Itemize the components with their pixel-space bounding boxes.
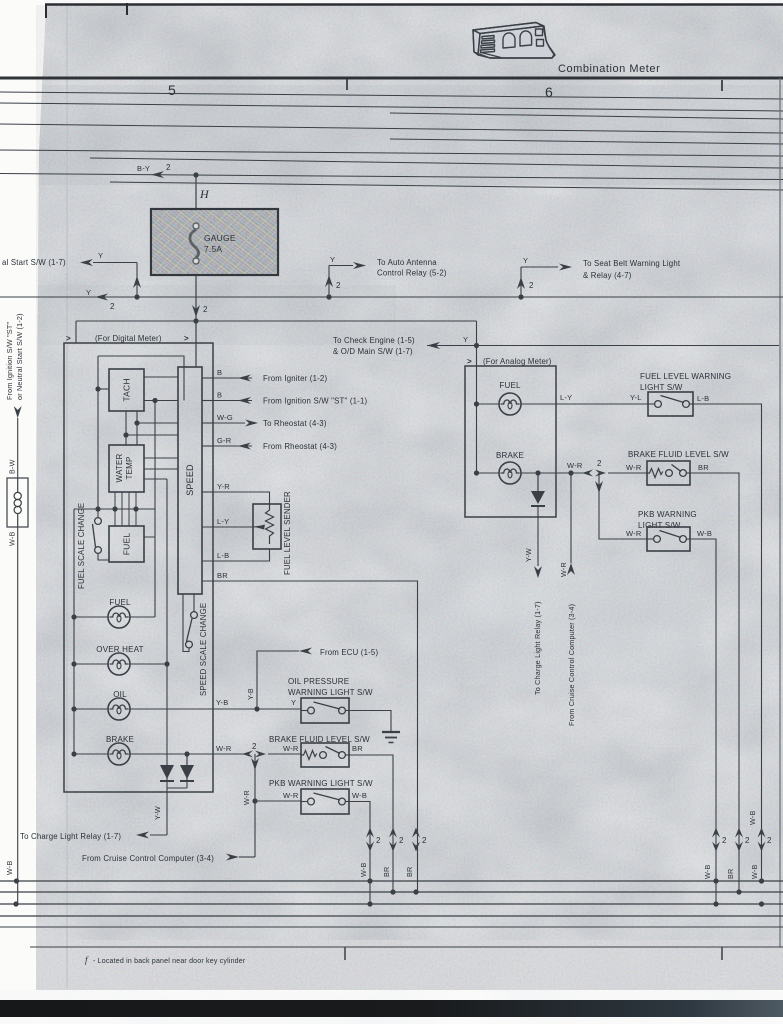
wire corner to analog feed	[476, 321, 478, 346]
svg-text:BRAKE: BRAKE	[496, 451, 524, 460]
svg-text:Y: Y	[98, 251, 103, 260]
wire to tach	[98, 388, 109, 390]
svg-text:From ECU (1-5): From ECU (1-5)	[320, 648, 378, 657]
connector arrow up	[325, 275, 333, 287]
svg-text:TEMP: TEMP	[125, 456, 134, 479]
svg-text:From Cruise Control Computer (: From Cruise Control Computer (3-4)	[567, 604, 576, 726]
connector arrow B-Y	[151, 171, 164, 178]
stub To Rheostat	[202, 422, 213, 424]
combination meter icon	[473, 23, 555, 59]
svg-text:BR: BR	[352, 744, 363, 753]
footer tick	[721, 947, 723, 960]
svg-text:2: 2	[767, 836, 772, 845]
connector arrow down	[192, 305, 200, 317]
wire B-Y bus	[0, 174, 783, 180]
svg-text:H: H	[199, 187, 210, 201]
junction B-Y/H	[193, 172, 198, 177]
(For Analog Meter) box	[465, 366, 556, 517]
svg-text:BR: BR	[726, 869, 735, 879]
meter WATER TEMP unit	[109, 445, 144, 492]
junction	[518, 294, 523, 299]
lamp OIL	[108, 698, 130, 720]
svg-text:& Relay (4-7): & Relay (4-7)	[583, 271, 632, 280]
wire tach-watertemp	[125, 411, 127, 445]
switch brake fluid level (right)	[647, 461, 690, 485]
wire W-B to ground bus	[17, 527, 19, 904]
top left tick	[45, 4, 47, 18]
svg-text:L-B: L-B	[217, 551, 229, 560]
svg-text:(For Analog Meter): (For Analog Meter)	[483, 357, 552, 366]
wire wt-fuel	[114, 492, 116, 526]
wire fuel unit stub	[144, 536, 155, 538]
svg-text:SPEED: SPEED	[185, 464, 195, 496]
lamp rail	[73, 509, 75, 754]
top tick x127	[126, 3, 128, 15]
wire Y to check engine	[427, 345, 779, 347]
bottom black bar	[0, 1000, 783, 1017]
svg-text:Y: Y	[523, 256, 528, 265]
paper crease	[66, 6, 68, 988]
connector arrow up	[133, 276, 141, 288]
svg-text:7.5A: 7.5A	[204, 244, 222, 254]
junction	[326, 294, 331, 299]
switch oil pressure warning light	[301, 698, 349, 723]
wire feed	[476, 346, 478, 474]
wire	[520, 267, 522, 297]
svg-text:W-R: W-R	[567, 461, 583, 470]
svg-text:From Ignition S/W "ST" (1-1): From Ignition S/W "ST" (1-1)	[263, 397, 367, 406]
svg-text:Y-W: Y-W	[524, 548, 533, 562]
svg-text:To Seat Belt Warning Light: To Seat Belt Warning Light	[583, 259, 681, 268]
svg-text:>: >	[184, 334, 189, 343]
wire wt-speed	[144, 468, 178, 470]
connector arrow down	[251, 758, 259, 770]
svg-text:Y: Y	[86, 288, 91, 297]
wire wt to overheat	[144, 478, 167, 480]
svg-text:2: 2	[110, 302, 115, 311]
wire to fuel lamp	[154, 401, 156, 618]
svg-text:From Igniter (1-2): From Igniter (1-2)	[263, 374, 327, 383]
svg-text:LIGHT S/W: LIGHT S/W	[640, 383, 683, 392]
inline connector 2	[242, 751, 253, 758]
svg-text:WARNING LIGHT S/W: WARNING LIGHT S/W	[288, 688, 373, 697]
svg-text:From Rheostat (4-3): From Rheostat (4-3)	[263, 442, 337, 451]
svg-text:W-R: W-R	[283, 791, 299, 800]
wire L-Y	[202, 526, 253, 528]
thick ruler line	[0, 77, 783, 80]
wire from ECU	[257, 651, 299, 709]
internal wiring	[98, 356, 184, 401]
arrow down to charge light relay	[534, 566, 542, 578]
svg-text:Y-B: Y-B	[246, 688, 255, 700]
junction	[193, 318, 198, 323]
noise filter coil	[7, 478, 28, 527]
svg-text:>: >	[467, 357, 472, 366]
svg-text:G-R: G-R	[217, 436, 232, 445]
svg-text:B-W: B-W	[8, 459, 17, 474]
svg-text:6: 6	[545, 84, 553, 100]
svg-text:2: 2	[376, 836, 381, 845]
junction	[474, 470, 479, 475]
junction	[14, 878, 19, 883]
svg-text:To Charge Light Relay (1-7): To Charge Light Relay (1-7)	[533, 601, 542, 695]
junction Y	[474, 343, 479, 348]
svg-text:BR: BR	[217, 571, 228, 580]
svg-text:TACH: TACH	[122, 378, 132, 401]
right page border	[779, 78, 781, 947]
wire Y-B to oil pressure switch	[130, 708, 301, 710]
svg-text:Y: Y	[330, 255, 335, 264]
svg-text:2: 2	[399, 836, 404, 845]
svg-text:W-R: W-R	[216, 744, 232, 753]
wire	[328, 266, 330, 298]
ruler tick x347	[346, 79, 348, 90]
svg-text:2: 2	[422, 836, 427, 845]
inline connector 2 at x=716	[712, 828, 720, 852]
svg-text:Combination Meter: Combination Meter	[558, 63, 660, 75]
junction	[252, 798, 257, 803]
wire Y to start S/W	[93, 262, 137, 264]
svg-text:WATER: WATER	[115, 453, 124, 482]
lamp FUEL	[108, 606, 130, 628]
branch to PKB right	[599, 473, 647, 539]
svg-text:al Start S/W (1-7): al Start S/W (1-7)	[2, 258, 66, 267]
lamp FUEL analog	[499, 393, 521, 415]
inline connector 2 at x=416	[412, 828, 420, 852]
ruler tick x722	[721, 80, 723, 91]
junction	[123, 432, 128, 437]
arrow to start S/W	[80, 259, 93, 266]
wire wt-fuel	[135, 492, 137, 526]
wire W-R	[521, 472, 584, 474]
svg-text:W-B: W-B	[352, 791, 367, 800]
stub From Igniter	[202, 377, 213, 379]
svg-text:W-B: W-B	[697, 529, 712, 538]
wire Y-W	[166, 788, 168, 835]
connector arrow up	[517, 277, 525, 289]
stub From Ignition SW ST	[202, 400, 213, 402]
diode D3	[537, 473, 539, 491]
switch PKB warning light (right)	[647, 527, 690, 551]
svg-text:From Ignition S/W "ST": From Ignition S/W "ST"	[5, 322, 14, 400]
svg-text:W-B: W-B	[8, 532, 17, 546]
wire bottom extra	[0, 926, 783, 928]
wire tach-speed	[144, 376, 178, 378]
footer rule	[30, 946, 783, 948]
wire L-B	[202, 549, 270, 561]
arrow from ECU	[299, 648, 312, 655]
svg-text:(For Digital Meter): (For Digital Meter)	[95, 334, 162, 343]
fuse GAUGE 7.5A box	[151, 209, 278, 275]
switch PKB warning light (left)	[301, 789, 349, 814]
svg-text:Y-L: Y-L	[630, 393, 642, 402]
svg-text:2: 2	[203, 305, 208, 314]
meter SPEED unit	[178, 367, 202, 594]
cruise control feed	[570, 473, 572, 563]
scan tone bands	[36, 85, 783, 185]
svg-text:To Rheostat (4-3): To Rheostat (4-3)	[263, 419, 327, 428]
wire W-R branch	[254, 754, 256, 857]
svg-text:To Check Engine (1-5): To Check Engine (1-5)	[333, 336, 415, 345]
wire wt-fuel	[128, 492, 130, 526]
wire H to gauge fuse	[195, 175, 197, 209]
junction	[13, 901, 18, 906]
svg-text:PKB WARNING LIGHT S/W: PKB WARNING LIGHT S/W	[269, 779, 373, 788]
wire drop	[136, 263, 138, 298]
wire to fuel scale change	[97, 356, 99, 517]
svg-text:L-Y: L-Y	[217, 517, 229, 526]
svg-text:- Located in back panel near d: - Located in back panel near door key cy…	[93, 958, 246, 965]
svg-text:2: 2	[529, 281, 534, 290]
svg-text:BR: BR	[698, 463, 709, 472]
inline connector 2 at x=393	[389, 828, 397, 852]
meter TACH unit	[109, 369, 144, 411]
svg-text:2: 2	[745, 836, 750, 845]
svg-text:W-B: W-B	[748, 811, 757, 825]
wire Y-R	[202, 491, 213, 493]
junction oil/ecu	[254, 706, 259, 711]
arrow up from cruise control	[567, 563, 575, 575]
wire to speed	[137, 422, 178, 424]
svg-text:W-B: W-B	[359, 863, 368, 877]
white scan margin left	[0, 0, 46, 990]
connector arrow down	[595, 481, 603, 493]
svg-text:Control Relay (5-2): Control Relay (5-2)	[377, 269, 447, 278]
svg-text:W-B: W-B	[750, 865, 759, 879]
ground/bus lines bottom	[0, 880, 783, 882]
svg-text:Y-B: Y-B	[216, 698, 228, 707]
svg-text:L-B: L-B	[697, 394, 709, 403]
junction diode	[535, 470, 540, 475]
wire tach-speed B	[144, 400, 178, 402]
horizontal harness lines (top band)	[0, 92, 783, 99]
switch fuel level warning light	[648, 392, 693, 416]
wire to speed	[126, 434, 178, 436]
inline connector 2 at x=370	[366, 828, 374, 852]
inline connector 2 at x=739	[735, 828, 743, 852]
wire overheat feed	[166, 479, 168, 765]
meter FUEL unit	[109, 526, 144, 562]
svg-text:FUEL SCALE CHANGE: FUEL SCALE CHANGE	[77, 503, 86, 589]
arrow down from ignition	[14, 406, 22, 418]
svg-text:& O/D Main S/W (1-7): & O/D Main S/W (1-7)	[333, 347, 413, 356]
switch blade	[187, 619, 193, 642]
svg-text:2: 2	[252, 742, 257, 751]
fuel level sender box	[253, 504, 281, 549]
connector arrow Y bus	[95, 294, 108, 301]
wire Y bus	[0, 296, 783, 298]
wire tach-watertemp	[136, 411, 138, 445]
wire Y-W	[537, 506, 539, 566]
wire L-Y / Y-L	[521, 403, 648, 405]
svg-text:Y-W: Y-W	[153, 806, 162, 820]
svg-text:GAUGE: GAUGE	[204, 233, 236, 243]
svg-text:B: B	[217, 368, 222, 377]
wire wt-speed	[144, 457, 178, 459]
svg-text:FUEL LEVEL WARNING: FUEL LEVEL WARNING	[640, 372, 731, 381]
top page edge line	[45, 3, 783, 6]
lamp OVER HEAT	[108, 653, 130, 675]
svg-text:W-R: W-R	[242, 790, 251, 805]
svg-text:SPEED SCALE CHANGE: SPEED SCALE CHANGE	[199, 603, 208, 696]
svg-text:L-Y: L-Y	[560, 393, 572, 402]
diode D2	[186, 754, 188, 781]
junction	[134, 420, 139, 425]
svg-text:BR: BR	[382, 867, 391, 877]
wire corner	[75, 321, 77, 343]
svg-text:>: >	[66, 334, 71, 343]
svg-text:Y-R: Y-R	[217, 482, 230, 491]
svg-text:FUEL LEVEL SENDER: FUEL LEVEL SENDER	[283, 491, 292, 575]
svg-text:B: B	[217, 391, 222, 400]
svg-text:2: 2	[336, 281, 341, 290]
svg-text:To Auto Antenna: To Auto Antenna	[377, 258, 437, 267]
wire	[521, 266, 558, 268]
arrow to charge light relay	[136, 832, 149, 839]
wire	[329, 265, 353, 267]
footer tick	[344, 947, 346, 960]
svg-text:W-R: W-R	[283, 744, 299, 753]
svg-text:BRAKE FLUID LEVEL S/W: BRAKE FLUID LEVEL S/W	[628, 450, 729, 459]
svg-text:or Neutral Start S/W (1-2): or Neutral Start S/W (1-2)	[15, 313, 24, 400]
svg-text:BR: BR	[405, 867, 414, 877]
svg-text:FUEL: FUEL	[499, 381, 521, 390]
wire B-W	[17, 418, 19, 478]
wire diode tie	[167, 787, 187, 789]
junction	[134, 294, 139, 299]
arrow to seat belt warning light	[559, 264, 572, 271]
svg-text:W-B: W-B	[5, 861, 14, 875]
svg-text:2: 2	[166, 163, 171, 172]
lamp BRAKE	[108, 743, 130, 765]
lamp BRAKE analog	[499, 462, 521, 484]
wire gauge to Y bus	[195, 275, 197, 297]
wire lamp feed bus	[74, 508, 155, 510]
switch blade	[93, 524, 96, 547]
junction cruise	[568, 470, 573, 475]
wire Y feeder	[76, 320, 477, 322]
svg-text:Y: Y	[463, 335, 468, 344]
diode D1	[166, 765, 168, 781]
ground	[382, 731, 400, 733]
arrow to auto antenna relay	[353, 262, 366, 269]
svg-text:OIL PRESSURE: OIL PRESSURE	[288, 677, 349, 686]
junction overheat	[164, 661, 169, 666]
svg-text:B-Y: B-Y	[137, 164, 150, 173]
junction	[95, 506, 100, 511]
svg-text:2: 2	[722, 836, 727, 845]
svg-text:FUEL: FUEL	[122, 533, 132, 556]
junction	[474, 401, 479, 406]
svg-text:Y: Y	[291, 698, 296, 707]
junction	[112, 506, 117, 511]
svg-text:LIGHT S/W: LIGHT S/W	[638, 521, 681, 530]
inline connector 2	[582, 470, 593, 477]
stub From Rheostat	[202, 445, 213, 447]
wire BR from speed	[202, 581, 418, 892]
svg-text:2: 2	[597, 459, 602, 468]
wire to digital meter	[195, 297, 197, 367]
svg-text:To Charge Light Relay (1-7): To Charge Light Relay (1-7)	[20, 832, 121, 841]
wire to ground	[349, 711, 391, 732]
svg-text:W-R: W-R	[559, 562, 568, 577]
inline connector 2 at x=761.5	[758, 828, 766, 852]
svg-text:W-G: W-G	[217, 413, 233, 422]
wire wt-fuel	[121, 492, 123, 526]
svg-text:PKB WARNING: PKB WARNING	[638, 510, 697, 519]
(For Digital Meter) box	[64, 343, 213, 792]
svg-text:5: 5	[168, 82, 176, 98]
wire W-R	[130, 753, 244, 755]
arrow to check engine	[427, 342, 440, 349]
svg-text:From Cruise Control Computer (: From Cruise Control Computer (3-4)	[82, 854, 214, 863]
junction	[133, 506, 138, 511]
switch brake fluid level (left)	[301, 743, 349, 767]
svg-text:W-R: W-R	[626, 529, 642, 538]
svg-text:W-R: W-R	[626, 463, 642, 472]
junction	[152, 398, 157, 403]
svg-text:W-B: W-B	[703, 865, 712, 879]
junction	[95, 386, 100, 391]
junction brake/diode	[184, 751, 189, 756]
